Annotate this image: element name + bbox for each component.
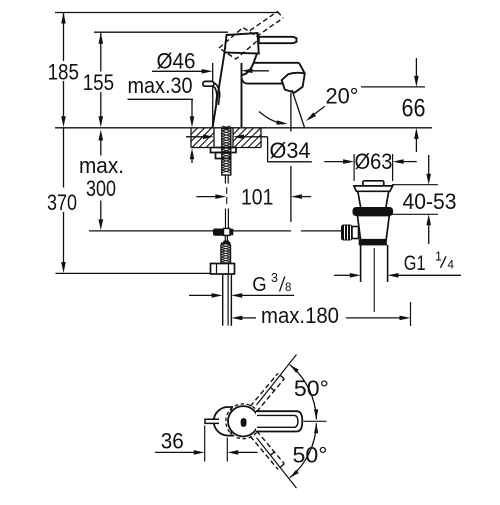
dim36 extension right — [226, 438, 228, 462]
dim36 leader left — [155, 451, 195, 453]
bottom view dashed lever lower mid cap — [268, 452, 275, 457]
svg-text:max.: max. — [79, 153, 124, 178]
spout top edge — [254, 62, 300, 64]
pop-up rod pair above joint — [225, 209, 227, 229]
max180 arrow left — [231, 316, 242, 321]
bottom view centre mark — [241, 419, 246, 427]
bottom view lever bar inner — [257, 415, 298, 427]
G3/8 connection nut — [211, 264, 235, 275]
dimension 185 arrow down — [61, 116, 66, 127]
rod joint centre box — [224, 228, 231, 235]
50deg lower angle arc — [290, 423, 317, 478]
bottom view dashed lever lower line 1 — [257, 431, 285, 464]
dia63 arrow left — [393, 159, 404, 164]
50deg upper arc arrow outer — [290, 365, 299, 373]
svg-text:G1: G1 — [404, 252, 426, 275]
bottom view main circle — [228, 406, 258, 436]
bottom view lever bar outer — [256, 411, 302, 431]
svg-text:4: 4 — [448, 259, 455, 271]
max30 vertical line upper — [191, 99, 193, 116]
waste tailpiece collar black — [359, 240, 386, 245]
bottom view dashed lever upper line 1 — [257, 379, 285, 412]
water stream vertical line lower — [290, 166, 292, 222]
dimension 155 line lower segment — [100, 92, 102, 117]
spout outlet level reference line — [361, 86, 425, 88]
waste flange — [354, 186, 393, 191]
deck top surface line with left and right extensions — [55, 127, 432, 129]
dia63 leader right — [403, 161, 417, 163]
svg-text:155: 155 — [83, 70, 114, 95]
faucet cartridge head outline — [225, 33, 259, 54]
svg-text:Ø63: Ø63 — [355, 149, 393, 174]
max30 arrow up at deck bottom — [190, 148, 195, 159]
deck hatching right part — [233, 128, 240, 135]
G1-1/4 arrow right — [350, 273, 361, 278]
G3/8 arrow right — [212, 293, 223, 298]
dim40-53 extension upper — [392, 184, 438, 186]
dim66 arrow down — [414, 76, 419, 87]
dimension 155 arrow up — [99, 33, 104, 44]
spout aerator tip polygon — [282, 73, 305, 93]
dim40-53 arrow up — [426, 214, 431, 225]
faucet lever dashed raised position line 2 — [257, 18, 284, 37]
max30 vertical line lower — [191, 159, 193, 163]
dim66 line upper — [415, 58, 417, 77]
max180 line left — [242, 317, 256, 319]
50deg lower reference line — [257, 438, 297, 489]
svg-text:max.180: max.180 — [261, 303, 339, 328]
reference line at pop-up rod level (max300 bottom) — [89, 230, 214, 232]
svg-text:370: 370 — [47, 190, 77, 215]
rod joint right block — [230, 229, 233, 234]
bottom view dashed lever lower end cap — [278, 464, 284, 469]
flexible hose lines — [222, 274, 224, 326]
dimension 185 line upper segment — [63, 13, 65, 62]
faucet lever handle horizontal — [259, 37, 297, 43]
hose connection small taper — [223, 241, 229, 244]
svg-text:Ø46: Ø46 — [157, 49, 196, 74]
pop-up rod upper pair — [224, 175, 226, 184]
deck hatching left part — [191, 128, 198, 135]
waste rod horizontal right segment — [233, 230, 291, 232]
20deg leader arrow — [306, 112, 316, 121]
waste tailpipe right line — [387, 245, 389, 282]
G3/8 arrow left — [231, 293, 242, 298]
svg-text:Ø34: Ø34 — [270, 138, 311, 163]
waste lever knurled knob — [342, 225, 353, 240]
extension line top (spout lever top level) — [55, 12, 278, 14]
waste neck right edge — [386, 191, 389, 207]
mounting washer plate — [211, 148, 237, 153]
faucet centreline dash 2 — [226, 197, 228, 204]
dimension max300 line upper segment — [100, 140, 102, 156]
max180 extension left — [230, 306, 232, 326]
bottom view body stadium (spout barrel) — [214, 407, 233, 436]
waste lever cylinder — [352, 227, 359, 239]
svg-text:max.30: max.30 — [128, 73, 193, 98]
waste neck left edge — [358, 191, 361, 207]
dimension max300 arrow up at deck — [99, 130, 104, 141]
dia34 arrow right — [203, 135, 214, 140]
waste tailpipe left line — [360, 245, 362, 282]
dimension 155 line upper segment — [100, 32, 102, 71]
dim40-53 line lower — [428, 225, 430, 245]
deck bottom line left part — [191, 147, 211, 149]
dimension 155 arrow down — [99, 116, 104, 127]
svg-text:1: 1 — [435, 250, 442, 264]
dim101 leader left — [196, 196, 216, 198]
G3/8 leader right — [242, 294, 294, 296]
dimension 185 arrow up — [61, 13, 66, 24]
faucet body right edge upper — [242, 54, 258, 76]
dim36 extension left — [204, 426, 206, 462]
faucet body right edge vertical — [241, 63, 243, 128]
dia63 leader left — [324, 161, 344, 163]
svg-text:66: 66 — [402, 95, 426, 123]
max180 line right — [346, 317, 400, 319]
dia46 leader line right — [253, 70, 270, 72]
bottom view spout stub — [205, 419, 219, 423]
max180 extension right — [410, 302, 412, 326]
dia34 leader step down — [267, 137, 269, 162]
max180 arrow right — [400, 316, 411, 321]
dim40-53 extension lower — [392, 213, 438, 215]
waste seal ring black — [353, 208, 393, 216]
50deg upper reference line — [257, 355, 297, 406]
bottom view dashed lever upper mid cap — [268, 385, 275, 390]
deck slab right edge — [260, 128, 262, 148]
dia34 leader right — [244, 136, 268, 138]
deck hole right edge — [232, 128, 234, 148]
G3/8 leader left — [189, 294, 212, 296]
deck hole left edge — [213, 128, 215, 148]
svg-text:G: G — [252, 274, 266, 296]
svg-text:3: 3 — [271, 271, 278, 285]
dim101 arrow left — [291, 194, 302, 199]
dim66 line lower — [415, 139, 417, 153]
dia46 leader line left — [152, 70, 203, 72]
pop-up rod knob at rear — [213, 83, 220, 105]
50deg upper angle arc — [290, 365, 317, 420]
dia46 extension line left — [212, 63, 214, 128]
deck bottom line right part — [236, 147, 261, 149]
20deg leader line — [309, 106, 325, 118]
dia46 arrow left — [242, 69, 253, 74]
dimension 370 line lower segment — [63, 212, 65, 262]
svg-text:300: 300 — [86, 176, 116, 201]
dim36 arrow left — [227, 450, 238, 455]
dim101 leader right — [302, 196, 311, 198]
water stream vertical line upper — [290, 93, 292, 132]
svg-text:50°: 50° — [293, 443, 328, 468]
dimension 370 line middle segment — [63, 128, 65, 188]
faucet lever dashed raised end cap — [278, 12, 284, 19]
dia46 arrow right — [202, 69, 213, 74]
50deg upper arc arrow inner — [314, 409, 318, 419]
dia63 arrow right — [343, 159, 354, 164]
threaded mounting shank — [222, 129, 231, 176]
dimension 370 arrow down — [61, 262, 66, 273]
max30 arrow down at deck top — [190, 116, 195, 127]
dimension max300 arrow down — [99, 219, 104, 230]
dia34 underline — [268, 161, 312, 163]
faucet centreline dash 1 — [226, 187, 228, 194]
bottom view dashed lever upper line 2 — [250, 373, 278, 406]
svg-text:36: 36 — [161, 429, 184, 454]
dim36 arrow right — [194, 450, 205, 455]
bottom view dashed circle — [226, 404, 261, 439]
svg-text:8: 8 — [285, 282, 291, 294]
hose threaded adapter — [221, 244, 231, 264]
waste centreline — [373, 248, 375, 312]
svg-text:185: 185 — [48, 60, 79, 85]
dia34 arrow left — [233, 135, 244, 140]
G1-1/4 arrow left — [388, 273, 399, 278]
bottom view horizontal reference at bar end — [304, 420, 327, 422]
bottom view dashed lever lower line 2 — [250, 436, 278, 469]
dimension 185 line lower segment — [63, 81, 65, 117]
spout bottom fillet — [242, 78, 248, 84]
svg-text:101: 101 — [241, 185, 273, 210]
G1-1/4 leader right — [398, 274, 462, 276]
svg-text:20°: 20° — [326, 84, 359, 109]
mounting nut — [216, 153, 231, 159]
water stream slanted line — [292, 90, 305, 128]
50deg lower arc arrow outer — [290, 470, 299, 478]
waste body — [357, 216, 389, 240]
pop-up rod pair below joint — [224, 236, 226, 242]
svg-text:50°: 50° — [294, 376, 329, 401]
faucet lever dashed raised position line 1 — [250, 12, 278, 31]
spout bottom edge — [247, 83, 283, 85]
faucet body left edge — [213, 53, 225, 129]
dim40-53 arrow down — [426, 174, 431, 185]
waste plug cap — [363, 181, 384, 186]
dimension max300 line lower segment — [100, 201, 102, 220]
max30 leader underline — [128, 98, 194, 100]
dia63 extension left — [353, 154, 355, 181]
spout right slant — [299, 63, 305, 74]
deck slab left edge — [190, 128, 192, 148]
bottom view dashed lever upper end cap — [278, 373, 284, 378]
dia63 extension right — [392, 154, 394, 181]
dim66 arrow up — [414, 128, 419, 139]
bottom view stadium right cap arc — [231, 409, 233, 435]
svg-text:40-53: 40-53 — [403, 189, 457, 214]
20deg arc arrow — [276, 120, 287, 125]
dim101 arrow right — [215, 194, 226, 199]
G1-1/4 leader left — [334, 274, 350, 276]
rod joint left block — [214, 229, 224, 235]
extension line (handle base level) — [94, 31, 228, 33]
20deg angle arc — [259, 112, 284, 124]
dim36 leader right — [237, 451, 257, 453]
dim40-53 line upper — [428, 155, 430, 175]
faucet head dashed alternate position — [219, 28, 260, 60]
reference line at hose-nut level (370 bottom) — [56, 272, 211, 274]
50deg lower arc arrow inner — [314, 423, 318, 433]
dia34 leader left — [186, 136, 205, 138]
